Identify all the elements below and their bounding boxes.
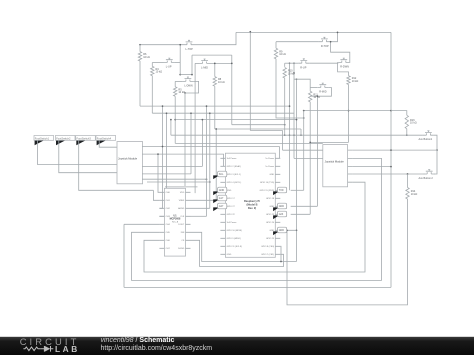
wire mcp top edge wire — [165, 186, 198, 188]
svg-text:10 kΩ: 10 kΩ — [411, 193, 418, 196]
junction R16 rail — [406, 134, 408, 136]
wire sensor2 out — [59, 140, 117, 172]
svg-text:DIN: DIN — [181, 232, 185, 234]
wire R6 top stub — [139, 45, 141, 52]
resistor R6 — [138, 52, 150, 61]
svg-text:3v3 Power: 3v3 Power — [227, 157, 237, 160]
wire jm2 5v in — [283, 149, 323, 151]
junction L-MID riser — [231, 63, 233, 65]
wire ch0 drop — [158, 154, 159, 192]
svg-text:GPIO 22: GPIO 22 — [227, 214, 236, 216]
resistor R5 — [174, 87, 186, 97]
wire R6 output drop — [139, 61, 141, 106]
wire loop3 bottom — [124, 286, 391, 288]
pushbutton L-TOP — [184, 40, 195, 51]
junction loop3 aux — [390, 149, 392, 151]
svg-text:GND: GND — [279, 205, 285, 208]
wire R-UP rail right — [309, 62, 338, 64]
svg-text:GPIO 24: GPIO 24 — [266, 222, 275, 224]
pushbutton L-MID — [199, 59, 210, 70]
svg-text:SCL: SCL — [219, 173, 224, 176]
net flag GND right 1 — [273, 203, 287, 211]
wire aux2 rail — [353, 173, 425, 175]
wire jm2 pin3 loop — [353, 166, 391, 168]
svg-text:10 kΩ: 10 kΩ — [178, 91, 185, 94]
junction R-UP tap dot — [293, 72, 295, 74]
wire flag row4 link — [291, 189, 304, 191]
junction mcp agnd top — [209, 112, 211, 114]
net flag TXD — [273, 187, 287, 195]
junction mid drop 3 — [170, 119, 172, 121]
wire R5 output drop — [174, 96, 176, 143]
svg-text:VREF: VREF — [179, 200, 185, 202]
junction loop3 drop — [390, 166, 392, 168]
svg-text:10 kΩ: 10 kΩ — [143, 56, 150, 59]
pushbutton Aux Button1 — [419, 131, 434, 141]
wire loop3 left — [123, 224, 125, 287]
wire sensor4 out — [99, 140, 117, 147]
pushbutton L-UP — [164, 58, 175, 69]
svg-text:GPIO 27: GPIO 27 — [227, 206, 236, 208]
svg-text:10 kΩ: 10 kΩ — [352, 80, 359, 83]
svg-text:DGND: DGND — [178, 248, 185, 250]
junction ce0 riser — [280, 261, 282, 263]
wire L-MID left pin — [195, 62, 199, 64]
svg-text:GND: GND — [269, 174, 274, 176]
wire jm1 gnd feed — [147, 181, 210, 183]
wire tap bus 2 — [152, 112, 294, 114]
junction r-mid tap — [317, 95, 319, 97]
wire drop 303 to flag — [303, 111, 305, 191]
wire tap bus 3 — [175, 119, 296, 121]
wire R14 top stub — [407, 174, 409, 188]
svg-text:GPIO 2 (SDA1): GPIO 2 (SDA1) — [227, 165, 242, 168]
svg-text:GPIO 25: GPIO 25 — [266, 238, 275, 240]
wire R-TOP rail left — [276, 41, 319, 43]
svg-text:GND: GND — [279, 229, 285, 232]
wire L-MID rail left — [180, 74, 192, 76]
svg-text:10 kΩ: 10 kΩ — [279, 53, 286, 56]
wire L-MID over bus — [192, 54, 232, 56]
junction L-TOP rail — [139, 44, 141, 46]
svg-text:R-MID: R-MID — [319, 91, 326, 94]
wire R12 bottom drop — [348, 85, 350, 143]
net flag GND left — [213, 187, 227, 195]
wire mcp vref riser — [191, 199, 217, 201]
svg-text:R-UP: R-UP — [300, 66, 306, 69]
wire R11 top stub — [309, 88, 311, 92]
junction L-MID out — [284, 124, 286, 126]
wire R10 top stub — [284, 63, 286, 67]
junction ltop tap bottom — [179, 74, 181, 76]
wire R9 top stub — [275, 42, 277, 49]
svg-text:FootSwitch3: FootSwitch3 — [77, 136, 92, 140]
junction R9 drop — [303, 117, 305, 119]
wire jm1 pin2 to Pi — [147, 154, 224, 166]
module FootSwitch3 — [76, 136, 96, 146]
logo diode symbol — [40, 346, 53, 352]
IC U1 MCP3008 — [159, 188, 190, 256]
wire ch1 drop — [153, 190, 159, 200]
wire L-MID riser v — [231, 55, 233, 125]
svg-text:R-DWN: R-DWN — [340, 66, 349, 69]
wire jm1 pin1 to Pi — [147, 146, 280, 148]
junction ch2 top — [162, 105, 164, 107]
svg-text:FootSwitch1: FootSwitch1 — [35, 136, 50, 140]
wire tap riser 1 — [289, 63, 291, 190]
wire L-UP rail right — [175, 62, 181, 64]
svg-text:(Model B: (Model B — [247, 202, 258, 206]
wire R5 top stub — [174, 81, 176, 86]
svg-text:FootSwitch4: FootSwitch4 — [97, 136, 112, 140]
IC Raspberry Pi Model B — [220, 153, 280, 257]
wire sensor3 out — [79, 140, 154, 190]
junction L-MID over — [191, 74, 193, 76]
svg-text:Rev. A: Rev. A — [172, 221, 179, 224]
wire ch3 drop — [159, 113, 166, 216]
wire R14 return — [287, 199, 408, 305]
junction R14 tap — [407, 173, 409, 175]
wire tap riser 3 — [296, 79, 298, 261]
junction riser3 top — [296, 78, 298, 80]
wire jm1 pin4 feed — [147, 173, 191, 175]
junction bus 303 — [303, 110, 305, 112]
svg-text:GND: GND — [227, 190, 232, 192]
wire aux2 drop — [434, 150, 437, 174]
svg-text:GPIO 14 (TXD): GPIO 14 (TXD) — [260, 182, 275, 184]
wire jm2 pin5 loop — [144, 182, 365, 272]
wire R10 bottom drop — [284, 78, 286, 135]
net flag GPIO23 — [273, 211, 287, 219]
pushbutton R-TOP — [319, 37, 330, 48]
junction mcp clk top — [206, 105, 208, 107]
junction jm1 gnd — [209, 181, 211, 183]
svg-text:Rev. 2): Rev. 2) — [248, 206, 256, 210]
module FootSwitch4 — [96, 136, 116, 146]
svg-text:GPIO 9 (MISO): GPIO 9 (MISO) — [227, 238, 242, 240]
svg-text:TXD: TXD — [279, 189, 284, 192]
junction ch2 row1 — [162, 146, 164, 148]
wire mcp clk riser — [191, 215, 207, 217]
junction riser1 rail — [289, 62, 291, 64]
wire mcp clk riser v — [206, 106, 208, 216]
wire R-UP tap — [294, 79, 310, 87]
wire jm2 pin1 aux — [353, 149, 437, 151]
module Joystick Module 1 — [117, 142, 143, 184]
wire ltop tap drop — [179, 45, 181, 75]
wire tap riser 4 — [300, 129, 302, 135]
wire R-DWN right riser — [331, 42, 350, 63]
wire R16 bottom — [406, 129, 408, 136]
svg-text:GND: GND — [227, 254, 232, 256]
svg-text:GPIO 7 (CE1): GPIO 7 (CE1) — [261, 254, 274, 256]
wire R-TOP rail right — [330, 32, 338, 41]
wire mid drop 4 — [184, 93, 186, 186]
wire L-TOP rail left — [140, 44, 184, 46]
resistor R12 — [347, 76, 359, 85]
junction row9 corner — [286, 229, 288, 231]
junction R5 tap — [184, 92, 186, 94]
svg-text:CLK: CLK — [180, 216, 185, 218]
junction R-DWN feed — [330, 41, 332, 43]
wire gpio bus right — [304, 110, 391, 112]
svg-text:L-UP: L-UP — [166, 66, 172, 69]
svg-text:vincentil98 / Schematic: vincentil98 / Schematic — [101, 337, 175, 344]
svg-text:R-TOP: R-TOP — [321, 45, 329, 48]
junction riser2 rail — [293, 62, 295, 64]
wire mid drop 3 — [170, 120, 172, 136]
module FootSwitch2 — [55, 136, 75, 146]
wire mcp vref riser v — [215, 129, 217, 200]
wire mcp agnd riser v — [209, 113, 211, 208]
junction bus riser 250 — [249, 31, 251, 33]
junction jm1 pin4 riser — [190, 112, 192, 114]
wire jm2 pin2 loop — [132, 158, 382, 280]
junction riser3 bus — [296, 119, 298, 121]
junction riser1 bus — [289, 105, 291, 107]
wire aux1 right — [434, 135, 437, 150]
wire R-MID rail left — [310, 87, 317, 89]
wire R-UP rail left — [285, 62, 299, 64]
wire tap riser 2 — [293, 63, 295, 158]
svg-text:L-TOP: L-TOP — [186, 48, 194, 51]
svg-text:FootSwitch2: FootSwitch2 — [56, 136, 71, 140]
svg-text:5v Power: 5v Power — [265, 165, 274, 168]
svg-text:GPIO 11 (SCLK): GPIO 11 (SCLK) — [227, 246, 243, 248]
junction jm1 pin3 riser — [202, 119, 204, 121]
junction bus 391 — [390, 110, 392, 112]
svg-text:http://circuitlab.com/cw4sxbr8: http://circuitlab.com/cw4sxbr8yzckm — [101, 345, 213, 352]
pushbutton L-DWN — [182, 77, 193, 88]
wire R8 top stub — [214, 63, 216, 76]
logo resistor zigzag — [23, 347, 40, 351]
wire L-MID out bus — [232, 124, 285, 126]
junction ch0 top — [157, 153, 159, 155]
svg-text:GPIO 8 (CE0): GPIO 8 (CE0) — [261, 246, 274, 248]
resistor R16 — [405, 115, 417, 128]
module Joystick Module 2 — [323, 145, 348, 187]
junction R12 bus — [348, 110, 350, 112]
resistor R4 — [151, 66, 163, 75]
net flag GPIO27 — [213, 203, 227, 211]
wire pi row0 riser — [279, 147, 281, 159]
pushbutton R-DWN — [338, 58, 349, 69]
svg-text:10 kΩ: 10 kΩ — [156, 71, 163, 74]
svg-text:G17: G17 — [219, 197, 224, 200]
svg-text:GPIO 4 (GPCL): GPIO 4 (GPCL) — [227, 182, 242, 184]
svg-text:Aux Button 2: Aux Button 2 — [419, 177, 434, 180]
wire ce0 riser — [279, 246, 282, 261]
wire aux1 rail — [171, 134, 423, 136]
svg-text:Joystick Module: Joystick Module — [118, 157, 138, 161]
wire L-TOP rail right — [195, 32, 237, 44]
wire mid drop 5 — [194, 63, 196, 193]
wire R-DWN join bus — [310, 141, 348, 143]
wire R8 output drop — [214, 86, 216, 129]
pin stubs joystick 2 — [348, 150, 353, 182]
wire R4 top stub — [151, 63, 153, 67]
pushbutton R-MID — [317, 83, 328, 94]
net flag GPIO17 — [213, 195, 227, 203]
wire flag row7 link — [291, 213, 311, 215]
wire L-MID out riser — [210, 62, 232, 64]
junction ch3 top — [166, 112, 168, 114]
wire jm1 pin5 feed — [147, 178, 207, 180]
svg-text:VDD: VDD — [180, 192, 185, 194]
junction R-DWN join — [309, 142, 311, 144]
svg-text:5v Power: 5v Power — [265, 157, 274, 160]
junction tap riser 4 — [300, 134, 302, 136]
wire L-DWN rail left — [175, 80, 182, 82]
module FootSwitch1 — [34, 136, 54, 146]
wire ch2 drop — [159, 106, 162, 208]
junction aux node — [436, 149, 438, 151]
svg-text:Raspberry Pi: Raspberry Pi — [244, 199, 260, 203]
wire R11 bottom drop — [309, 102, 311, 214]
wire jm1 pin3 riser — [201, 120, 203, 167]
wire r-mid tap riser — [316, 96, 318, 206]
svg-text:3v3 Power: 3v3 Power — [227, 221, 237, 224]
junction R8 rail — [214, 63, 216, 65]
junction R10 rail — [284, 134, 286, 136]
junction tap riser 2 — [293, 134, 295, 136]
wire R-MID rail right — [310, 88, 331, 97]
svg-text:GPIO 18: GPIO 18 — [266, 198, 275, 200]
wire L-DWN rail right — [185, 81, 199, 93]
wire bus riser 250 — [249, 32, 251, 131]
wire R9 output drop — [276, 59, 304, 118]
wire L-MID over riser — [191, 55, 193, 75]
wire 3v3 bus drop right — [390, 32, 392, 287]
wire loop3 to mcp — [124, 223, 159, 225]
wire jm1 pin4 riser — [190, 113, 192, 174]
junction riser3 row9 — [296, 229, 298, 231]
wire tap bus 1 — [140, 105, 290, 107]
footer bar — [0, 337, 474, 355]
wire bus 250 drop — [282, 131, 284, 151]
net flag GND right 2 — [273, 227, 287, 235]
resistor R14 — [406, 188, 418, 200]
wire aux feed — [391, 111, 407, 116]
svg-text:GND: GND — [219, 189, 225, 192]
svg-text:G23: G23 — [279, 213, 284, 216]
wire jm2 5v in 2 — [294, 157, 323, 159]
wire tap bus 4 — [215, 128, 301, 130]
svg-text:GPIO 10 (MOSI): GPIO 10 (MOSI) — [227, 230, 243, 232]
junction R5 bus — [174, 119, 176, 121]
svg-text:L-DWN: L-DWN — [184, 85, 192, 88]
wire jm1 pin3 feed — [147, 165, 202, 167]
junction R-TOP bus — [337, 32, 339, 34]
wire mid rail 143 — [175, 142, 323, 144]
svg-text:LAB: LAB — [55, 344, 80, 354]
pushbutton Aux Button 2 — [419, 170, 435, 180]
wire R-DWN left drop — [338, 63, 349, 76]
wire flag row6 link — [291, 205, 318, 207]
wire sensor1 out — [38, 140, 118, 164]
svg-text:GPIO 17: GPIO 17 — [227, 198, 236, 200]
svg-text:MCP3008: MCP3008 — [170, 218, 181, 221]
junction jm1 pin5 — [206, 178, 208, 180]
svg-text:AGND: AGND — [178, 207, 185, 210]
svg-text:G27: G27 — [219, 205, 224, 208]
resistor R11 — [309, 91, 321, 102]
wire mcp agnd riser — [191, 207, 210, 209]
wire row9 link — [280, 229, 296, 231]
resistor R8 — [213, 77, 225, 87]
wire 3v3 top bus — [236, 31, 391, 33]
svg-text:10 kΩ: 10 kΩ — [218, 81, 225, 84]
resistor R9 — [274, 48, 286, 59]
logo diode triangle — [45, 346, 51, 352]
wire L-UP rail left — [152, 62, 164, 64]
pushbutton R-UP — [298, 59, 309, 70]
svg-text:GPIO 15 (RXD): GPIO 15 (RXD) — [260, 190, 275, 192]
wire R4 output drop — [151, 76, 153, 114]
svg-text:Joystick Module: Joystick Module — [325, 160, 345, 164]
junction ltop tap — [179, 44, 181, 46]
svg-text:DOUT: DOUT — [178, 224, 185, 226]
svg-text:10 kΩ: 10 kΩ — [410, 122, 417, 125]
svg-text:L-MID: L-MID — [201, 67, 208, 70]
net flag GPIO4 — [213, 171, 227, 179]
wire mcp cs to ce1 — [191, 240, 284, 266]
resistor R10 — [283, 68, 295, 79]
svg-text:GPIO 3 (SCL1): GPIO 3 (SCL1) — [227, 174, 241, 176]
junction mcp vref top — [215, 128, 217, 130]
wire bus 250 east — [250, 130, 282, 132]
wire mcp din to ce0 — [191, 232, 297, 261]
pin stubs joystick 1 — [142, 147, 147, 180]
svg-text:Aux Button1: Aux Button1 — [419, 138, 433, 141]
junction rail 289 — [289, 134, 291, 136]
